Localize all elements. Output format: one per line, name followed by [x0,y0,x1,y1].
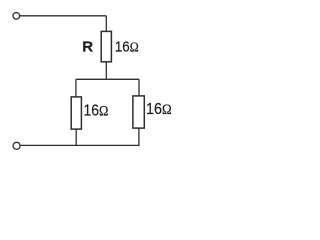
terminal bottom-left [13,142,20,149]
svg-text:R: R [82,38,93,55]
wire top vertical drop to R [105,16,107,32]
svg-text:16Ω: 16Ω [84,102,109,119]
wire left branch to bottom [75,129,77,145]
svg-text:16Ω: 16Ω [115,38,139,55]
wire top horizontal [20,15,106,17]
wire bottom horizontal [20,144,139,146]
resistor left body [71,97,81,129]
wire R bottom to rail [105,62,107,79]
wire right branch to bottom [138,128,140,145]
wire middle rail [76,78,139,80]
resistor right body [133,96,144,128]
wire left branch drop [75,79,77,97]
wire right branch drop [138,79,140,96]
terminal top-left [13,13,20,20]
svg-text:16Ω: 16Ω [146,101,172,118]
resistor R body [101,31,111,61]
